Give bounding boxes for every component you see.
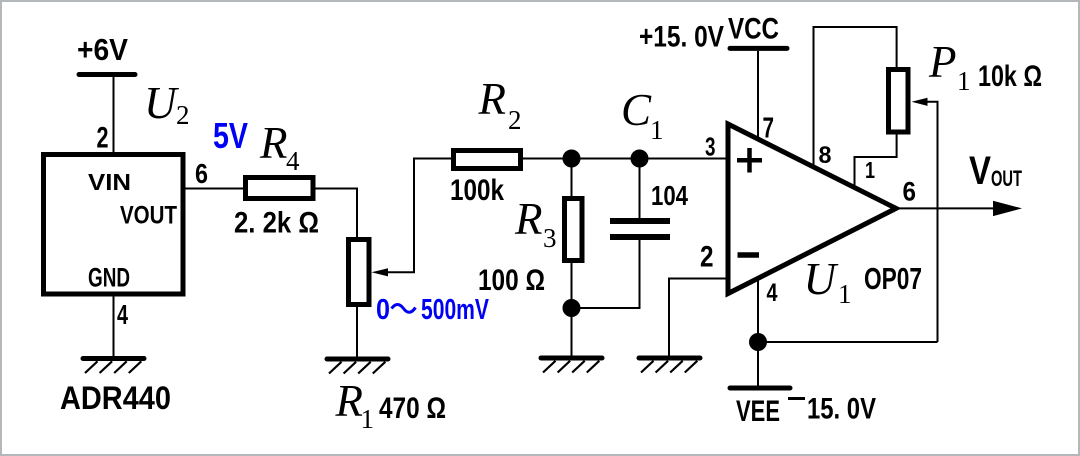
- potentiometer R1 wiper arrow: [372, 268, 389, 276]
- power VEE bar: [730, 386, 790, 391]
- svg-text:6: 6: [903, 177, 917, 207]
- capacitor C1 bottom plate: [610, 234, 670, 240]
- wire +6V to U2: [113, 77, 115, 152]
- svg-text:470 Ω: 470 Ω: [379, 392, 446, 425]
- op-amp plus input sign: [737, 148, 762, 173]
- svg-text:100 Ω: 100 Ω: [478, 264, 545, 297]
- resistor R2: [454, 151, 521, 169]
- svg-text:VIN: VIN: [88, 169, 131, 195]
- wire node to C1: [639, 159, 641, 221]
- svg-text:OP07: OP07: [864, 261, 922, 296]
- svg-text:VOUT: VOUT: [120, 202, 177, 230]
- svg-text:2: 2: [700, 241, 714, 274]
- potentiometer P1 body: [889, 70, 909, 133]
- potentiometer R1 body: [349, 240, 370, 305]
- ground under U2: [83, 359, 144, 374]
- svg-text:VCC: VCC: [728, 13, 779, 46]
- svg-text:+6V: +6V: [77, 32, 128, 67]
- svg-text:15. 0V: 15. 0V: [807, 393, 876, 426]
- svg-text:10k Ω: 10k Ω: [978, 60, 1042, 93]
- svg-text:4: 4: [286, 146, 300, 176]
- power VCC bar: [730, 46, 787, 51]
- wire node to R3: [571, 159, 573, 201]
- svg-text:1: 1: [838, 279, 852, 309]
- capacitor C1 top plate: [610, 218, 670, 224]
- svg-text:C: C: [621, 85, 652, 135]
- svg-text:1: 1: [650, 115, 664, 145]
- node junction dot R3 top: [563, 150, 581, 168]
- wire R2 to op-amp pin 3: [521, 158, 731, 160]
- wire VCC to pin 7: [757, 51, 759, 140]
- svg-text:5V: 5V: [213, 115, 248, 156]
- svg-text:3: 3: [543, 223, 557, 253]
- wire VEE node to P1 wiper column: [758, 341, 938, 343]
- wire pin 4 to VEE: [757, 280, 759, 386]
- svg-text:4: 4: [767, 279, 778, 307]
- node junction dot R3 bottom: [563, 299, 581, 317]
- resistor R3: [565, 199, 583, 261]
- label tilde wave: [392, 305, 416, 313]
- svg-text:100k: 100k: [450, 174, 504, 207]
- power +6V bar: [79, 72, 135, 77]
- svg-text:1: 1: [957, 66, 971, 96]
- svg-text:2: 2: [97, 122, 109, 155]
- ground under R3: [541, 358, 602, 373]
- output arrowhead: [993, 201, 1022, 216]
- svg-text:3: 3: [705, 132, 716, 162]
- svg-text:1: 1: [865, 157, 875, 183]
- svg-text:ADR440: ADR440: [60, 380, 171, 416]
- svg-text:V: V: [969, 149, 991, 193]
- svg-text:8: 8: [819, 142, 832, 169]
- potentiometer P1 wiper arrow: [912, 98, 928, 106]
- svg-text:0: 0: [376, 294, 390, 326]
- wire ground to op-amp pin 2: [669, 279, 730, 359]
- svg-text:4: 4: [117, 299, 128, 330]
- svg-text:6: 6: [195, 158, 208, 189]
- svg-text:2: 2: [176, 100, 190, 130]
- svg-text:R: R: [335, 376, 364, 426]
- svg-text:7: 7: [763, 113, 775, 145]
- wire R3 bottom to ground: [571, 261, 573, 358]
- wire output: [897, 207, 1000, 209]
- svg-text:P: P: [928, 37, 957, 87]
- svg-text:U: U: [804, 254, 839, 304]
- op-amp U1 triangle: [728, 124, 896, 294]
- svg-text:R: R: [478, 74, 507, 124]
- wire pin 8 to P1 top: [814, 27, 897, 167]
- node junction dot VEE net: [749, 333, 767, 351]
- resistor R4: [246, 178, 314, 199]
- svg-text:2. 2k Ω: 2. 2k Ω: [234, 207, 319, 240]
- op-amp minus input sign: [738, 252, 760, 258]
- wire R1 wiper to R2: [386, 159, 453, 273]
- svg-text:GND: GND: [88, 263, 130, 293]
- wire U2 GND pin to ground: [113, 295, 115, 358]
- svg-text:R: R: [514, 194, 543, 244]
- wire U2 pin6 to R4: [185, 188, 244, 190]
- svg-text:OUT: OUT: [991, 166, 1022, 191]
- svg-text:1: 1: [361, 404, 375, 434]
- wire R1 bottom to ground: [356, 304, 358, 358]
- wire P1 wiper down to VEE node: [925, 102, 938, 342]
- wire node to C1 bottom: [572, 239, 640, 308]
- svg-text:500mV: 500mV: [421, 294, 489, 326]
- wire R4 to potentiometer R1: [316, 189, 358, 240]
- ground under op-amp pin 2: [639, 358, 700, 373]
- power -15.0V minus sign: [788, 397, 805, 400]
- wire pin 1 to P1 bottom: [855, 133, 897, 187]
- svg-text:+15. 0V: +15. 0V: [639, 21, 724, 54]
- svg-text:R: R: [259, 118, 288, 168]
- svg-text:VEE: VEE: [736, 395, 780, 428]
- svg-text:U: U: [144, 78, 179, 128]
- svg-text:2: 2: [508, 105, 522, 135]
- ground under R1: [327, 359, 388, 374]
- node junction dot C1 top: [631, 150, 649, 168]
- IC U2 box: [44, 155, 184, 295]
- svg-text:104: 104: [651, 180, 688, 211]
